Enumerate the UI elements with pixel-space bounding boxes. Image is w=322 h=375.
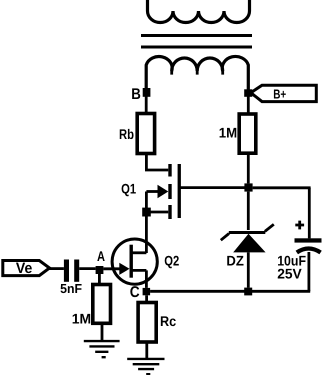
wire Q1 gate to right rail bbox=[180, 186, 249, 189]
svg-text:25V: 25V bbox=[277, 265, 302, 281]
node B+ junction dot bbox=[244, 89, 252, 97]
transistor Q1 drain plate bbox=[168, 164, 171, 177]
transistor Q1 source plate bbox=[168, 205, 171, 219]
transistor Q2 base arrow bbox=[103, 267, 119, 270]
zener diode DZ anode triangle bbox=[233, 234, 265, 253]
transistor Q1 body plate bbox=[168, 184, 171, 199]
svg-text:Q1: Q1 bbox=[121, 181, 136, 197]
svg-text:1M: 1M bbox=[72, 311, 91, 327]
wire capacitor to node A bbox=[79, 267, 95, 270]
wire 1M to mid junction bbox=[247, 153, 250, 183]
capacitor 10uF plus sign bbox=[295, 221, 304, 230]
wire B+ node to 1M bbox=[247, 96, 250, 114]
wire mid junction to cap corner bbox=[253, 186, 311, 189]
wire C to Rc bbox=[145, 295, 148, 302]
junction dot Q1 source bbox=[142, 208, 151, 217]
transistor Q1 gate line bbox=[178, 164, 181, 218]
transformer T1 secondary winding bbox=[146, 56, 248, 92]
wire node A down to 1M bbox=[98, 274, 101, 285]
wire source junction to source plate bbox=[146, 211, 168, 214]
svg-text:1M: 1M bbox=[219, 125, 237, 141]
secondary winding cusp ticks bbox=[172, 71, 223, 75]
resistor Rb bbox=[137, 114, 154, 154]
ground (input bias) bbox=[84, 341, 120, 357]
resistor Rc bbox=[138, 303, 156, 343]
wire 10uF to bottom rail bbox=[307, 252, 310, 291]
zener DZ right wing bbox=[265, 224, 274, 231]
wire mid junction to DZ bbox=[247, 192, 250, 230]
capacitor C1 5nF right plate bbox=[74, 260, 79, 282]
wire Rb to Q1 drain bbox=[146, 154, 168, 171]
capacitor 10uF curved plate bbox=[297, 249, 321, 253]
output flag B+ bbox=[251, 85, 316, 101]
svg-text:Rb: Rb bbox=[119, 126, 134, 142]
wire Q1 source down to Q2 collector bbox=[145, 217, 148, 254]
node B junction dot bbox=[143, 88, 151, 97]
transistor Q2 base bar bbox=[130, 245, 133, 278]
capacitor 10uF positive plate bbox=[295, 238, 322, 242]
wire Rc to ground bbox=[145, 342, 148, 359]
svg-text:A: A bbox=[97, 248, 105, 264]
capacitor C1 5nF left plate bbox=[64, 260, 69, 282]
input flag Ve bbox=[3, 261, 50, 276]
svg-text:B+: B+ bbox=[273, 86, 286, 101]
transistor Q2 emitter link bbox=[131, 270, 146, 288]
transistor Q1 body arrow bbox=[146, 190, 157, 193]
wire Q1 body to source junction bbox=[145, 192, 148, 213]
junction dot bottom right bbox=[244, 288, 252, 296]
svg-text:DZ: DZ bbox=[226, 252, 244, 268]
svg-text:B: B bbox=[131, 86, 141, 103]
transformer core bbox=[141, 36, 252, 48]
zener diode DZ cathode bar bbox=[229, 231, 265, 234]
transformer T1 primary winding bbox=[148, 0, 250, 23]
svg-text:Rc: Rc bbox=[160, 313, 176, 329]
zener DZ left wing bbox=[221, 234, 229, 241]
resistor 1M (feedback) bbox=[239, 114, 256, 153]
svg-text:Q2: Q2 bbox=[164, 252, 179, 268]
ground (Rc) bbox=[127, 359, 164, 374]
transistor Q2 circle bbox=[112, 239, 157, 284]
wire Ve to capacitor bbox=[50, 267, 64, 270]
bottom rail wire C to DZ to cap bbox=[150, 290, 310, 293]
wire B node to Rb bbox=[145, 96, 148, 114]
resistor 1M (input bias) bbox=[93, 285, 111, 324]
wire corner down to 10uF bbox=[308, 188, 311, 239]
wire 1M to ground bbox=[101, 323, 104, 341]
svg-text:Ve: Ve bbox=[16, 260, 32, 277]
transistor Q2 collector link bbox=[131, 251, 146, 254]
node C junction dot bbox=[143, 288, 151, 295]
wire DZ to bottom junction bbox=[247, 252, 250, 287]
svg-text:C: C bbox=[130, 284, 140, 301]
node A junction dot bbox=[96, 266, 104, 274]
junction dot mid right bbox=[244, 183, 252, 191]
svg-text:5nF: 5nF bbox=[60, 281, 82, 296]
